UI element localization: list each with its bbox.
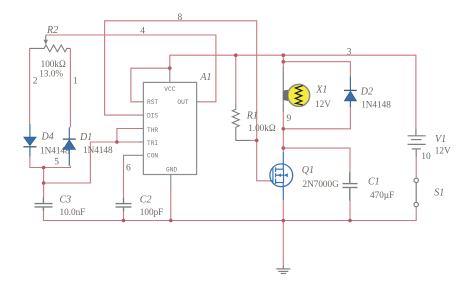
wire node5 D4-D1 bottoms [30, 156, 71, 167]
svg-text:DIS: DIS [147, 112, 158, 119]
svg-text:1N4148: 1N4148 [361, 99, 391, 109]
wire switch lower stub [415, 207, 417, 217]
junction R1 bottom on gate net 8 [255, 139, 259, 143]
svg-text:V1: V1 [435, 134, 446, 145]
svg-text:12V: 12V [315, 99, 331, 109]
wire net4 out to wiper [46, 35, 216, 102]
svg-text:OUT: OUT [177, 99, 188, 106]
svg-text:C2: C2 [140, 195, 152, 206]
lamp lead gray segment [282, 67, 284, 112]
IC pin stubs [124, 69, 203, 190]
wire C2 bottom [123, 211, 125, 221]
capacitor C3 [35, 198, 53, 211]
svg-text:R1: R1 [246, 110, 258, 121]
svg-text:S1: S1 [434, 188, 444, 199]
svg-text:VCC: VCC [164, 86, 175, 93]
svg-text:D1: D1 [79, 132, 92, 143]
wire battery to switch [415, 157, 417, 178]
wire R1 bottom to gate net [250, 139, 257, 141]
wire left column node2 [29, 48, 31, 124]
svg-text:12V: 12V [435, 146, 451, 156]
ground [276, 265, 290, 273]
diode D4 [29, 124, 31, 157]
diode D1 [68, 127, 70, 166]
wire GND lead red part [170, 189, 172, 220]
svg-text:RST: RST [147, 99, 158, 106]
junction THR/TRI node [115, 140, 119, 144]
wire zigzag node5 to TRI [44, 142, 139, 183]
svg-text:10.0nF: 10.0nF [60, 207, 86, 217]
svg-text:10: 10 [421, 152, 431, 162]
junction node 5 diodes/C3 [42, 166, 46, 170]
svg-text:D4: D4 [41, 132, 54, 143]
resistor R1 [232, 103, 249, 140]
battery V1 [408, 128, 426, 156]
wire Q1 source down [282, 200, 284, 220]
mosfet Q1 [270, 164, 293, 187]
svg-text:R2: R2 [46, 25, 58, 36]
svg-text:3: 3 [347, 47, 352, 57]
svg-text:X1: X1 [315, 85, 327, 96]
wire net8 DIS to gate [105, 21, 270, 181]
diode D2 [349, 76, 351, 107]
junction R1 top on net 3 [234, 53, 238, 57]
svg-text:1N4148: 1N4148 [83, 145, 113, 155]
junction C1 on ground rail [348, 219, 352, 223]
svg-text:9: 9 [287, 114, 292, 124]
wire right column node1 [69, 48, 71, 127]
wire C1 bottom [349, 200, 351, 220]
svg-text:THR: THR [147, 127, 158, 134]
svg-text:CON: CON [147, 152, 158, 159]
capacitor C1 [343, 172, 358, 201]
junction RST/VCC [168, 66, 172, 70]
svg-text:1: 1 [73, 77, 78, 87]
wire C3 top [43, 168, 45, 199]
svg-text:Q1: Q1 [302, 165, 314, 176]
wire VCC rail net3 [170, 55, 416, 128]
svg-text:13.0%: 13.0% [39, 68, 63, 78]
wire lamp vertical node9 [282, 62, 284, 152]
wire bottom rail [44, 211, 417, 221]
junction node 5 to TRI wire [42, 181, 46, 185]
wire RST branch [131, 68, 170, 102]
svg-text:C3: C3 [60, 195, 72, 206]
wire lamp loop top [283, 55, 350, 76]
wire THR branch [117, 129, 139, 143]
lamp X1 [288, 84, 310, 106]
svg-text:4: 4 [140, 27, 145, 37]
wire CON to C2 red part [123, 162, 125, 199]
svg-text:6: 6 [126, 164, 131, 174]
potentiometer R2 [30, 35, 71, 52]
capacitor C2 [116, 198, 132, 211]
junction node 9 lamp/D2 bottom [282, 127, 286, 131]
wire R1 top [235, 55, 237, 103]
junction node 9 drain/C1 [282, 146, 286, 150]
svg-text:1.00kΩ: 1.00kΩ [248, 123, 276, 133]
switch S1 [414, 178, 418, 207]
svg-text:100pF: 100pF [140, 207, 164, 217]
wire D2 bottom [283, 107, 350, 129]
svg-text:8: 8 [178, 13, 183, 23]
svg-text:A1: A1 [199, 72, 211, 83]
wire C1 branch [283, 148, 350, 172]
junction GND pin on ground rail [169, 219, 173, 223]
junction D2 branch top [282, 60, 286, 64]
junction lamp branch on net 3 [282, 53, 286, 57]
svg-text:470µF: 470µF [370, 190, 394, 200]
junction source/ground on rail [282, 219, 286, 223]
svg-text:2N7000G: 2N7000G [303, 179, 340, 189]
IC A1 555 box [143, 82, 196, 174]
svg-text:GND: GND [166, 167, 177, 174]
junction C2 on ground rail [122, 219, 126, 223]
svg-text:2: 2 [33, 77, 38, 87]
svg-text:D2: D2 [360, 87, 373, 98]
wire ground drop [282, 221, 284, 266]
svg-text:TRI: TRI [147, 140, 158, 147]
svg-text:5: 5 [54, 157, 59, 167]
svg-text:C1: C1 [368, 177, 380, 188]
